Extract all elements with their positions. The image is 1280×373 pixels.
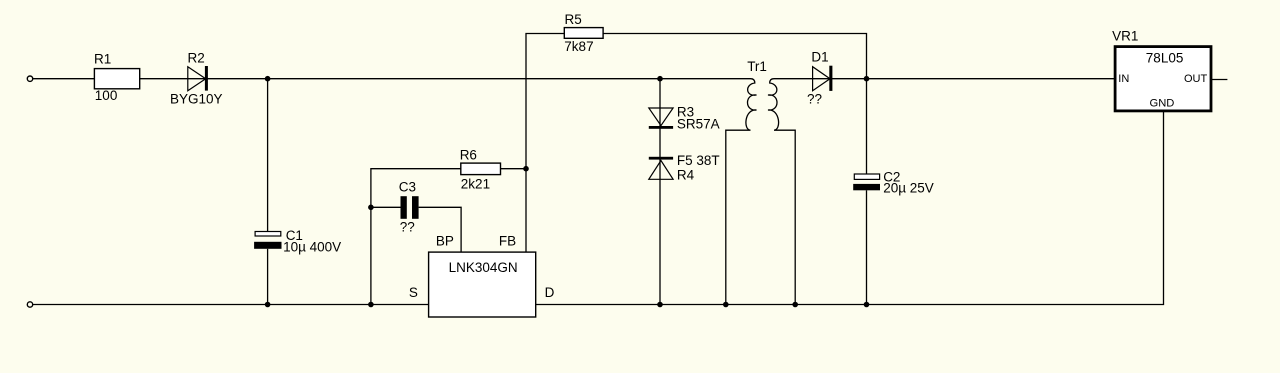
wire: R5 right to C2 top corner: [603, 34, 866, 79]
node: junction secondary bottom: [792, 302, 798, 308]
regulator VR1 78L05: [1115, 47, 1211, 111]
wire: VR1 output: [1211, 79, 1227, 81]
svg-text:2k21: 2k21: [461, 177, 490, 192]
svg-text:OUT: OUT: [1184, 73, 1208, 85]
wire: secondary through D1 to VR1: [774, 78, 1115, 80]
svg-text:FB: FB: [499, 234, 516, 249]
svg-text:Tr1: Tr1: [747, 59, 767, 74]
diode R4: [649, 157, 673, 180]
svg-text:R6: R6: [460, 148, 477, 163]
terminal: input bottom: [27, 302, 32, 307]
node: junction C3 left: [368, 205, 374, 211]
resistor R1: [94, 69, 139, 89]
svg-text:SR57A: SR57A: [677, 117, 720, 132]
node: junction C2 top: [864, 76, 870, 82]
svg-text:R1: R1: [94, 52, 111, 67]
capacitor C1: [254, 232, 281, 249]
svg-text:D: D: [545, 285, 555, 300]
wire: bottom rail right (D pin to GND riser): [536, 111, 1164, 305]
wire: R5 left vertical (down to FB): [526, 34, 564, 253]
diode R2: [188, 66, 208, 91]
transformer Tr1 secondary winding: [768, 79, 795, 305]
wire: R3/R4 branch vertical: [659, 79, 661, 305]
wire: C1 bottom to rail: [267, 249, 269, 305]
svg-text:F5 38T: F5 38T: [677, 153, 720, 168]
capacitor C2: [853, 174, 880, 190]
wire: C2 branch upper: [866, 79, 868, 174]
svg-text:R2: R2: [188, 50, 205, 65]
resistor R5: [564, 28, 603, 39]
node: junction C2 bottom: [864, 302, 870, 308]
diode R3: [649, 108, 673, 129]
svg-text:GND: GND: [1150, 97, 1175, 109]
svg-text:S: S: [409, 285, 418, 300]
svg-text:20µ 25V: 20µ 25V: [883, 181, 934, 196]
node: junction C1 bottom: [265, 302, 271, 308]
node: junction R6/FB: [523, 166, 529, 172]
wire: C2 bottom to rail: [866, 190, 868, 304]
svg-text:R5: R5: [565, 12, 582, 27]
wire: R6 left branch: [371, 169, 461, 305]
wire: bottom rail left (to S pin): [33, 304, 429, 306]
svg-text:BP: BP: [436, 234, 454, 249]
node: junction R4 bottom: [657, 302, 663, 308]
svg-text:100: 100: [95, 88, 118, 103]
svg-text:78L05: 78L05: [1146, 51, 1184, 66]
svg-text:??: ??: [807, 92, 822, 107]
node: junction bottom rail left branch: [368, 302, 374, 308]
svg-text:VR1: VR1: [1112, 29, 1138, 44]
svg-text:??: ??: [400, 220, 415, 235]
capacitor C3: [401, 196, 419, 219]
node: junction R3 top: [657, 76, 663, 82]
diode D1: [813, 66, 833, 91]
svg-text:D1: D1: [811, 50, 828, 65]
svg-text:7k87: 7k87: [564, 39, 593, 54]
svg-text:R4: R4: [677, 167, 695, 182]
node: junction C1 top: [265, 76, 271, 82]
wire: C3 right to BP pin: [419, 207, 462, 252]
svg-text:LNK304GN: LNK304GN: [449, 260, 518, 275]
wire: R6 right to junction: [501, 168, 527, 170]
wire: top rail (terminal to transformer primary): [33, 78, 751, 80]
wire: C1 branch upper: [267, 79, 269, 232]
svg-text:IN: IN: [1118, 73, 1129, 85]
svg-text:C3: C3: [399, 180, 416, 195]
transformer Tr1 primary winding: [726, 79, 757, 305]
wire: C3 left: [371, 206, 401, 208]
svg-text:10µ 400V: 10µ 400V: [283, 240, 341, 255]
svg-text:BYG10Y: BYG10Y: [170, 92, 223, 107]
resistor R6: [461, 163, 501, 175]
node: junction primary bottom: [723, 302, 729, 308]
terminal: input top: [27, 76, 32, 81]
op-amp U1: LNK304GN IC body: [429, 252, 536, 317]
